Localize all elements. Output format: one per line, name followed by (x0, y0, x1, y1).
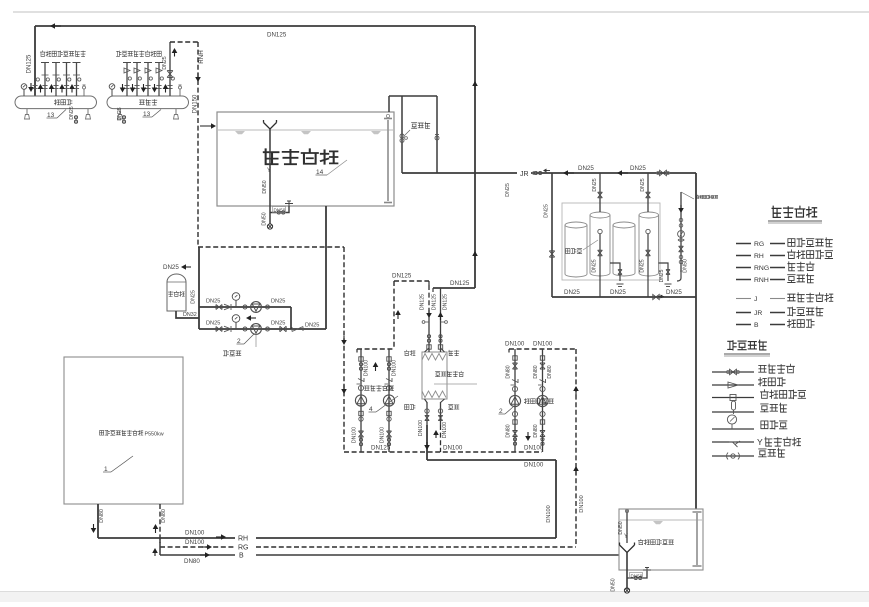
flow arrow up riser 3 (51, 89, 53, 93)
primary column 2 gate valve (540, 363, 545, 369)
primary column 2 gauge circle (540, 386, 545, 391)
tank drain outlet symbol (267, 224, 272, 229)
svg-text:DN50: DN50 (631, 574, 643, 579)
collector riser 3 valve (149, 77, 152, 80)
solenoid valve symbol left branch (400, 134, 404, 138)
pipe HX hot-out riser (426, 402, 428, 425)
flow arrow up RNG riser lower (474, 256, 476, 260)
drain branch top fitting (285, 203, 293, 205)
collector riser pipe 1 (126, 63, 128, 97)
gate valve inner c2 (598, 250, 603, 256)
svg-text:Y: Y (757, 437, 763, 447)
legend text RNH (788, 275, 795, 283)
branch 2 gate valve (216, 326, 222, 331)
legend pipe item RH (736, 255, 751, 257)
svg-text:DN25: DN25 (271, 299, 285, 305)
J line pressure gauge (678, 231, 685, 238)
svg-text:DN25: DN25 (117, 107, 123, 120)
pipe B riser from RH (159, 538, 161, 555)
text 膨胀罐 (168, 291, 172, 296)
pump secondary 2 (383, 395, 394, 406)
hot-in valves (438, 409, 442, 413)
pipe RNH dashed top link (170, 41, 198, 43)
pipe RNG supply riser to distributor (34, 26, 36, 96)
water mark 1 (235, 131, 245, 134)
flow arrow left on top pipe (55, 25, 61, 27)
heat exchanger body 板式换热器 (422, 352, 447, 399)
legend pipe item B (736, 324, 751, 326)
pipe RNH dashed bottom manifold (344, 451, 542, 453)
pipe RH vertical right (555, 460, 557, 538)
svg-text:DN100: DN100 (364, 360, 370, 376)
primary column 1 lower gate valve (512, 431, 517, 437)
pipe B main left (160, 554, 235, 556)
flow arrow up RNG riser upper (474, 86, 476, 90)
text 补水泵 with leader (255, 335, 257, 348)
svg-text:DN80: DN80 (506, 365, 512, 378)
svg-text:DN100: DN100 (524, 445, 544, 452)
secondary column 1 lower gate valve (358, 431, 363, 437)
gate valve riser c2 (598, 192, 603, 198)
manifold tank 分水缸 body (15, 96, 96, 109)
flow arrow down RNH (197, 73, 199, 77)
primary column 2 flex joint (540, 356, 544, 360)
flow arrow down cold-in (428, 310, 430, 313)
pipe HX cold-in riser lower (428, 310, 430, 352)
pipe HX hot-out thick drop (426, 425, 428, 460)
svg-text:DN25: DN25 (191, 290, 197, 304)
pressure gauge on distributor (23, 89, 25, 96)
distributor riser pipe 3 (55, 63, 57, 97)
primary column 2 flex below (540, 420, 544, 424)
flow arrow down J line (680, 205, 682, 208)
pipe softener top manifold (552, 172, 696, 174)
J line gate valve (679, 246, 684, 252)
svg-text:DN100: DN100 (579, 495, 585, 512)
pipe branch1 corner down (290, 307, 292, 329)
secondary column 2 flex below (387, 411, 391, 415)
flow arrow up riser 5 (71, 89, 73, 93)
flow arrow down RNH mid 1 (343, 336, 345, 340)
pipe secondary pump column 1 (360, 349, 362, 452)
distributor riser pipe 2 (44, 63, 46, 97)
leader 接市政给水管 (681, 192, 694, 199)
flow arrow left softener top 1 (568, 172, 574, 174)
riser pipe cylinder 2 (599, 173, 601, 212)
text 电磁阀 with leader (412, 123, 417, 129)
drain branch valve (277, 211, 280, 214)
flow arrow up between secondary columns (375, 367, 377, 371)
legend title 管道图例 (772, 206, 781, 217)
legend pipe item J (736, 298, 751, 300)
text 集水缸 (139, 100, 144, 104)
distributor riser 1 valve (36, 78, 39, 81)
flow arrow up dashed riser (397, 315, 399, 319)
text 分水缸 (54, 100, 59, 105)
svg-text:DN25: DN25 (206, 321, 220, 327)
text 接楼内供水管道 (40, 51, 45, 57)
collector riser pipe 3 (147, 63, 149, 97)
svg-text:DN25: DN25 (564, 289, 580, 296)
collector return riser to RNH (169, 42, 171, 96)
svg-text:DN25: DN25 (592, 178, 598, 191)
JR line valve (534, 171, 537, 174)
svg-text:Y: Y (624, 534, 628, 540)
flow arrow riser 1 (122, 84, 124, 88)
svg-text:B: B (754, 322, 759, 329)
pipe softener left riser (551, 173, 553, 297)
branch 1 gate valve (216, 304, 222, 309)
manifold tank 集水缸 body (107, 96, 189, 109)
valve symbol right branch (435, 136, 439, 140)
branch 1 pressure gauge (235, 300, 237, 307)
pipe makeup branch 2 (199, 328, 326, 330)
secondary column 2 butterfly valve (387, 363, 390, 366)
collector drain valve marks (122, 116, 125, 119)
svg-text:DN25: DN25 (505, 183, 511, 197)
softener cylinder 3 (613, 222, 635, 276)
text 冷出 (449, 350, 453, 356)
svg-text:DN25: DN25 (659, 269, 665, 282)
pipe RH main left (98, 537, 235, 539)
secondary column 1 lower butterfly (359, 438, 362, 441)
branch 2 pressure gauge (235, 322, 237, 329)
pipe B main right (256, 554, 619, 556)
pipe dashed riser to DN125 loop (393, 281, 395, 349)
vessel outlet pipe (176, 311, 199, 318)
softener cylinder 2 (590, 212, 610, 276)
svg-text:DN100: DN100 (380, 427, 386, 443)
pipe primary pump column 2 (542, 349, 544, 452)
text 高位膨胀水箱 (638, 539, 643, 545)
text 一网循环泵 (524, 398, 529, 403)
flow arrow down distributor feed (30, 83, 32, 87)
collector riser 5 valve (171, 77, 174, 80)
legend pipe item RG (736, 243, 751, 245)
legend text RG (788, 239, 795, 247)
expansion tank water line (620, 519, 702, 521)
svg-text:RNH: RNH (198, 50, 205, 63)
top border line (13, 11, 869, 13)
secondary column 1 gauge circle (358, 385, 363, 390)
pipe RH horizontal upper (427, 459, 556, 461)
J line backflow preventer (678, 239, 684, 242)
overflow funnel in tank (264, 120, 277, 129)
flow arrow up cold-out (440, 317, 442, 320)
legend pipe item RNH (736, 279, 751, 281)
gate valve softener left riser (549, 251, 554, 257)
secondary column 1 check valve (358, 379, 364, 382)
svg-text:DN150: DN150 (193, 94, 199, 113)
legend item 电磁阀 (712, 455, 754, 457)
svg-text:DN50: DN50 (618, 521, 624, 534)
primary column 1 gate valve (512, 363, 517, 369)
secondary column 1 flex joint (359, 357, 363, 361)
svg-text:DN25: DN25 (578, 165, 594, 172)
primary column 2 check valve (540, 380, 546, 383)
svg-text:DN25: DN25 (666, 289, 682, 296)
pipe RNG vertical right side (474, 26, 476, 288)
collector riser 1 check valve (124, 68, 130, 73)
flow arrow up hot-in (435, 435, 437, 438)
pipe dashed top manifold secondary pumps (357, 348, 394, 350)
primary column 1 check valve (512, 380, 518, 383)
flow arrow left between branches (251, 317, 256, 319)
pipe makeup vertical header (198, 247, 200, 329)
svg-text:DN32: DN32 (183, 312, 197, 318)
pump secondary 1 (355, 395, 366, 406)
svg-text:RH: RH (238, 536, 248, 543)
softener inlet valve (660, 170, 667, 175)
label DN50 boxed expansion (630, 573, 643, 579)
flow arrow riser 3 (143, 84, 145, 88)
legend text RNG (788, 262, 795, 271)
pipe solenoid branch right (436, 96, 438, 173)
collector left leg (119, 109, 121, 115)
gate valve on return riser (167, 71, 173, 78)
branch 2 flex joint (243, 327, 247, 331)
svg-text:RNH: RNH (754, 277, 769, 284)
pipe solenoid loop drop to tank (388, 96, 390, 112)
svg-text:J: J (754, 296, 757, 303)
distributor riser 2 valve (46, 78, 49, 81)
flow arrow riser 5 (165, 89, 167, 93)
legend item 压力表 (712, 428, 754, 430)
pipe softener bottom manifold (552, 296, 696, 298)
label DN50 boxed (273, 207, 286, 213)
svg-text:DN125: DN125 (443, 294, 449, 310)
svg-text:DN50: DN50 (611, 578, 617, 591)
text 接楼内回水管道 (116, 51, 121, 57)
flow arrow up boiler RG (155, 529, 157, 533)
drain elbow cylinder 2 (610, 263, 620, 281)
svg-text:DN25: DN25 (640, 259, 646, 272)
pipe dashed top manifold primary pumps (509, 348, 576, 350)
distributor left leg (26, 109, 28, 115)
text 热出 (405, 405, 409, 410)
svg-text:DN25: DN25 (271, 321, 285, 327)
tank level gauge glass (387, 120, 389, 201)
svg-text:DN125: DN125 (420, 294, 426, 310)
cold-in slant connector (425, 348, 430, 352)
pipe dashed DN125 horizontal (394, 280, 429, 282)
inner pipe cylinder 4 (647, 234, 649, 297)
HX top zigzag (422, 354, 446, 361)
flow arrow right RG main (202, 546, 207, 548)
svg-text:DN50: DN50 (262, 180, 268, 193)
pipe RG main right dashed (256, 546, 576, 548)
distributor riser pipe 4 (66, 63, 68, 97)
distributor riser 5 valve (78, 78, 81, 81)
branch 1 check valve (224, 304, 231, 310)
collector riser 2 valve (138, 77, 141, 80)
distributor riser pipe 5 (76, 63, 78, 97)
expansion tank inner fill pipe (626, 510, 628, 543)
primary column 2 lower butterfly (541, 438, 544, 441)
svg-text:DN80: DN80 (533, 424, 539, 437)
svg-text:DN25: DN25 (162, 56, 168, 69)
flow arrow up riser 2 (40, 89, 42, 93)
HX bottom zigzag (422, 391, 446, 398)
softener cylinder 1 (565, 222, 587, 277)
inner pipe cylinder 2 (599, 234, 601, 297)
svg-text:DN125: DN125 (450, 280, 470, 287)
pipe JR horizontal (402, 172, 517, 174)
tank drain pipe (269, 129, 271, 224)
pipe HX cold-out riser (440, 288, 442, 352)
primary column 2 circle below (540, 411, 545, 416)
pipe softener right vertical to expansion tank (695, 173, 697, 509)
J hook symbol (677, 270, 681, 281)
svg-text:DN50: DN50 (683, 259, 689, 273)
svg-text:RH: RH (754, 253, 764, 260)
legend item 涡轮碟阀 (712, 371, 754, 373)
expansion tank funnel (620, 543, 635, 553)
svg-text:DN25: DN25 (206, 299, 220, 305)
svg-text:P550kw: P550kw (144, 432, 163, 438)
flow arrow down hot-out (426, 442, 428, 445)
svg-text:DN125: DN125 (392, 273, 412, 280)
primary column 1 flex joint (513, 356, 517, 360)
expansion tank level gauge (696, 513, 698, 565)
pipe expansion tank drain (626, 552, 628, 589)
pipe HX hot-in riser (440, 402, 442, 425)
svg-text:DN100: DN100 (185, 539, 205, 546)
collector riser pipe 4 (158, 63, 160, 97)
primary column 1 lower butterfly (513, 438, 516, 441)
primary column 1 circle below (512, 411, 517, 416)
pipe solenoid branch left (401, 96, 403, 173)
svg-text:RG: RG (238, 545, 249, 552)
svg-text:DN125: DN125 (432, 294, 438, 310)
legend item 橡胶软接头 (712, 397, 754, 399)
pipe RNH dashed horizontal (198, 246, 344, 248)
svg-text:B: B (239, 553, 244, 560)
legend text RH (788, 250, 796, 259)
tank inlet arrow left (200, 125, 212, 127)
gate valve riser c4 (646, 192, 651, 198)
svg-text:DN100: DN100 (185, 530, 205, 537)
text 板式换热器 with underline (435, 372, 440, 377)
gate valve inner c4 (646, 250, 651, 256)
legend pipe item RNG (736, 267, 751, 269)
svg-text:DN25: DN25 (592, 259, 598, 272)
pipe RNH dashed vertical DN150 (197, 42, 199, 247)
drain elbow cylinder 4 (659, 263, 669, 281)
flow arrow down RNH mid 2 (343, 385, 345, 389)
svg-text:DN25: DN25 (163, 264, 179, 271)
svg-text:DN100: DN100 (533, 341, 553, 348)
distributor riser 4 valve (68, 78, 71, 81)
hot-out valves (425, 409, 429, 413)
bottom manifold valve (653, 294, 659, 299)
water mark 3 (371, 131, 381, 134)
pipe RNG supply top horizontal DN125 (35, 25, 475, 27)
svg-text:RG: RG (754, 241, 764, 248)
pipe HX hot-in dashed drop (440, 425, 442, 452)
pipe solenoid loop top (389, 95, 437, 97)
branch 2 extra gate valve (280, 326, 286, 331)
collector right leg (175, 109, 177, 115)
svg-text:JR: JR (520, 171, 529, 178)
cold-out slant connector (441, 348, 445, 352)
svg-text:DN25: DN25 (610, 289, 626, 296)
pipe RNH dashed vertical mid (343, 247, 345, 452)
collector riser 4 check valve (156, 68, 162, 73)
pipe JR horizontal after label (531, 172, 552, 174)
legend item 止回阀 (712, 384, 754, 386)
distributor right leg (87, 109, 89, 115)
secondary column 2 flex joint (387, 357, 391, 361)
svg-text:DN25: DN25 (640, 178, 646, 191)
collector riser 2 check valve (134, 68, 140, 73)
legend item 温度计 (712, 411, 754, 413)
svg-text:DN100: DN100 (505, 341, 525, 348)
flow arrow up return riser (174, 53, 176, 57)
expansion drain outlet symbol (624, 588, 629, 593)
svg-text:DN25: DN25 (544, 204, 550, 218)
pipe HX cold-in riser upper dashed (428, 285, 430, 310)
secondary column 2 lower gate valve (386, 431, 391, 437)
pipe RG dashed vertical right (575, 349, 577, 546)
collector riser 1 valve (128, 77, 131, 80)
pipe RH main right (256, 537, 556, 539)
text 软化水箱 (264, 149, 279, 164)
water mark 2 (301, 131, 311, 134)
flow arrow right RH main (216, 536, 221, 538)
svg-text:JR: JR (754, 310, 762, 317)
primary column 2 lower gate valve (540, 431, 545, 437)
flow arrow riser 4 (154, 84, 156, 88)
branch 1 flex joint (243, 305, 247, 309)
flow arrow up RG dashed 1 (575, 391, 577, 395)
distributor riser 3 valve (57, 78, 60, 81)
expansion vessel 膨胀罐 (167, 274, 186, 311)
svg-text:DN100: DN100 (443, 445, 463, 452)
svg-text:DN80: DN80 (506, 424, 512, 437)
text 二网循环泵 (364, 386, 369, 390)
relief valve on distributor right (83, 89, 85, 96)
secondary column 2 lower butterfly (387, 438, 390, 441)
text 低氮冷凝燃气锅炉P550kw (100, 431, 104, 436)
pump makeup 2 (251, 324, 262, 335)
svg-text:DN80: DN80 (99, 509, 105, 523)
legend item Y型过滤器 (712, 441, 754, 443)
collector riser 4 valve (160, 77, 163, 80)
svg-text:DN50: DN50 (274, 208, 286, 213)
svg-text:DN25: DN25 (305, 323, 319, 329)
distributor drain valve marks (74, 116, 77, 119)
legend pipe item JR (736, 312, 751, 314)
secondary column 2 gauge circle (386, 385, 391, 390)
svg-text:DN100: DN100 (546, 505, 552, 522)
svg-text:DN80: DN80 (533, 365, 539, 378)
flow arrow down boiler RH (93, 524, 95, 528)
tank 软化水箱 body (217, 112, 394, 206)
softener cylinder 4 (639, 212, 659, 276)
svg-text:DN125: DN125 (267, 32, 287, 39)
J line flanges (679, 255, 683, 259)
pump primary 1 (509, 395, 520, 406)
riser pipe cylinder 4 (647, 173, 649, 212)
flow arrow up RG dashed 2 (575, 471, 577, 475)
legend title 仪表图例 (728, 341, 736, 350)
tank water level line (218, 129, 393, 131)
pipe boiler RG drop dashed (159, 504, 161, 543)
pipe city water J line (680, 192, 682, 272)
branch 2 check valve (224, 326, 231, 332)
pressure gauge on collector (111, 89, 113, 96)
